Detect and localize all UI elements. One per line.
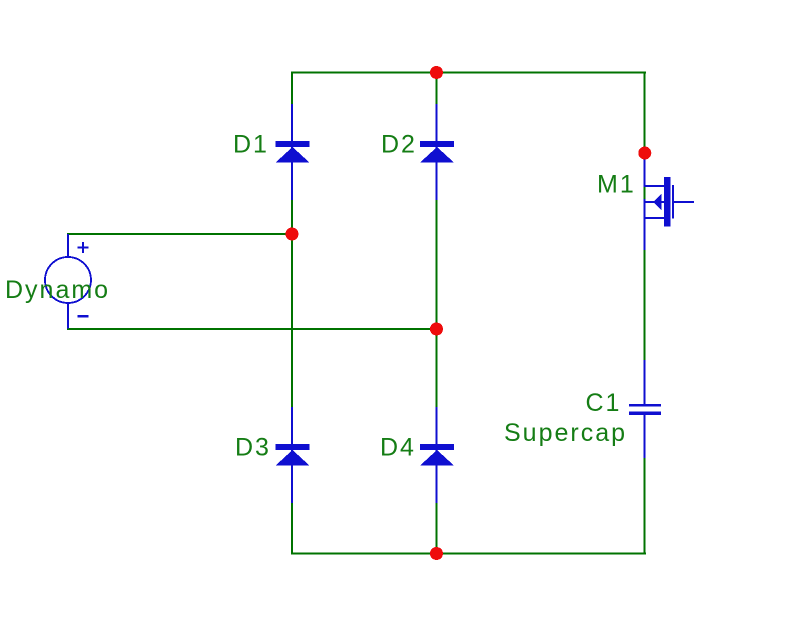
wire right branch (M1/C1 column)	[644, 72, 646, 554]
svg-text:D1: D1	[233, 131, 269, 159]
diode D3	[276, 407, 310, 503]
wire dynamo plus to bridge	[67, 233, 293, 235]
junction plus wire / D1-D3	[286, 228, 299, 241]
wire middle branch (D2/D4 column)	[436, 72, 438, 554]
junction minus wire / D2-D4	[430, 323, 443, 336]
label M1	[597, 171, 636, 199]
junction M1 drain	[638, 147, 651, 160]
diode D4	[420, 407, 454, 503]
voltage source Dynamo	[45, 234, 91, 329]
minus terminal mark	[78, 315, 89, 318]
svg-text:Dynamo: Dynamo	[5, 276, 110, 304]
label D1	[233, 131, 269, 159]
svg-text:D2: D2	[381, 131, 417, 159]
capacitor C1	[629, 360, 661, 458]
label D3	[235, 434, 271, 462]
wire top rail	[291, 72, 646, 74]
label Dynamo	[5, 276, 110, 304]
transistor M1 (NMOS)	[644, 157, 695, 250]
junction top rail / D2 column	[430, 66, 443, 79]
plus terminal mark	[78, 242, 89, 253]
svg-text:D3: D3	[235, 434, 271, 462]
svg-text:Supercap: Supercap	[504, 419, 627, 447]
svg-text:C1: C1	[586, 389, 622, 417]
wire bottom rail	[291, 553, 646, 555]
svg-text:D4: D4	[380, 434, 416, 462]
label C1	[586, 389, 622, 417]
svg-text:M1: M1	[597, 171, 636, 199]
diode D1	[276, 104, 310, 200]
label D2	[381, 131, 417, 159]
diode D2	[420, 104, 454, 200]
label D4	[380, 434, 416, 462]
junction bottom rail / D4 column	[430, 547, 443, 560]
label Supercap	[504, 419, 627, 447]
wire dynamo minus to bridge	[67, 328, 437, 330]
wire left branch (D1/D3 column)	[291, 72, 293, 554]
